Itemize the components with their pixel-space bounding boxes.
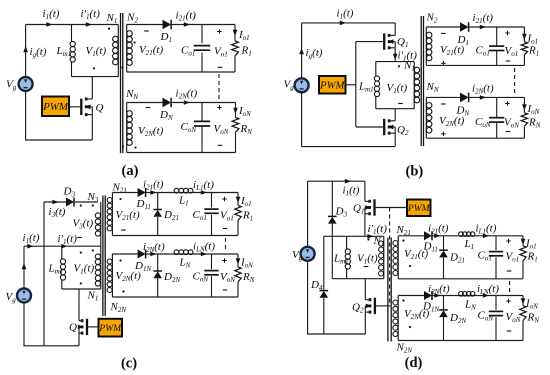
svg-text:Vo1: Vo1 bbox=[220, 210, 234, 223]
wire gate bus vertical (b) bbox=[355, 42, 357, 127]
wire RN branch lower (c) bbox=[237, 282, 239, 297]
transformer secondary winding N21 (d) bbox=[393, 236, 398, 279]
clamp diode D3 (d) bbox=[328, 216, 337, 223]
wire secondary1 bottom (a) bbox=[127, 71, 235, 73]
polarity dot primary bottom (a) bbox=[93, 67, 95, 69]
svg-text:Co1: Co1 bbox=[181, 45, 195, 58]
freewheel diode D2N (c) bbox=[153, 271, 162, 278]
wire drain tap lower (c) bbox=[78, 298, 80, 321]
current arrow ig (b) bbox=[299, 48, 304, 54]
diode D1 (b) bbox=[460, 22, 469, 32]
svg-text:R1: R1 bbox=[527, 251, 538, 264]
wire secondaryN top to DN (a) bbox=[127, 102, 163, 104]
polarity plus VoN (d) bbox=[506, 299, 511, 304]
wire RN branch upper (d) bbox=[522, 296, 524, 306]
svg-text:D2N: D2N bbox=[163, 271, 180, 284]
current arrow i3 (c) bbox=[52, 200, 58, 205]
wire primary loop bottom (d) bbox=[332, 278, 384, 280]
svg-text:RN: RN bbox=[242, 271, 255, 284]
inductor Lm1 (c) bbox=[60, 246, 65, 289]
wire gate lead Q2 (b) bbox=[356, 126, 384, 128]
current arrow i1 (d) bbox=[345, 179, 351, 184]
current arrow i21 (d) bbox=[434, 234, 440, 239]
svg-text:Lm1: Lm1 bbox=[48, 263, 64, 276]
diode D11 (c) bbox=[138, 188, 146, 197]
transformer primary winding N1 (a) bbox=[113, 25, 119, 77]
svg-text:iLN(t): iLN(t) bbox=[193, 241, 215, 254]
wire input top rail (b) bbox=[302, 22, 396, 24]
svg-text:NN: NN bbox=[426, 81, 439, 94]
svg-text:V2N(t): V2N(t) bbox=[138, 125, 164, 138]
svg-text:D2N: D2N bbox=[449, 312, 466, 325]
wire Q2 source (b) bbox=[394, 133, 396, 146]
svg-text:D1: D1 bbox=[160, 31, 172, 44]
wire secondary1 bottom (b) bbox=[426, 64, 524, 66]
polarity minus VoN (c) bbox=[223, 289, 228, 291]
PWM block (d) bbox=[407, 200, 431, 217]
svg-text:i1(t): i1(t) bbox=[343, 185, 360, 198]
svg-text:Io1: Io1 bbox=[238, 29, 250, 42]
svg-text:PWM: PWM bbox=[319, 80, 345, 92]
dot primary winding bottom (c) bbox=[80, 282, 82, 284]
svg-text:N1: N1 bbox=[373, 235, 385, 248]
wire RN branch upper (b) bbox=[523, 97, 525, 112]
dot N2N bottom (d) bbox=[409, 326, 411, 328]
polarity minus VoN (a) bbox=[218, 144, 223, 146]
dot secondary1 bottom-left (a) bbox=[121, 66, 123, 68]
wire Io1 arrow shaft (b) bbox=[523, 32, 525, 36]
wire drain tap (a) bbox=[91, 77, 93, 99]
wire CoN branch lower (c) bbox=[211, 276, 213, 297]
wire secondaryN top to D1N (d) bbox=[398, 295, 424, 297]
svg-text:N2N: N2N bbox=[110, 301, 127, 314]
polarity plus Vo1 (b) bbox=[505, 31, 510, 36]
wire Co1 branch upper (b) bbox=[496, 27, 498, 46]
wire Co1 branch upper (d) bbox=[495, 236, 497, 250]
wire secondaryN bottom (b) bbox=[426, 137, 524, 139]
svg-text:V2N(t): V2N(t) bbox=[439, 115, 465, 128]
wire RN branch upper (c) bbox=[237, 254, 239, 267]
svg-text:D3: D3 bbox=[335, 206, 348, 219]
polarity dot N1 (d) bbox=[367, 238, 369, 240]
svg-text:D11: D11 bbox=[136, 198, 151, 211]
dot reset winding (c) bbox=[80, 204, 82, 206]
wire secondaryN top after D1N (d) bbox=[432, 295, 523, 297]
diode D1N (d) bbox=[424, 291, 432, 300]
wire Co1 branch lower (a) bbox=[201, 53, 203, 73]
svg-text:Lm1: Lm1 bbox=[56, 45, 72, 58]
svg-text:ig(t): ig(t) bbox=[30, 46, 47, 59]
polarity dot N2N (d) bbox=[402, 299, 404, 301]
svg-text:Q: Q bbox=[69, 322, 77, 334]
capacitor CoN (a) bbox=[194, 121, 210, 126]
dashed link between outputs (c) bbox=[225, 238, 227, 252]
current arrow ig (a) bbox=[23, 46, 28, 52]
current arrow IoN (d) bbox=[521, 298, 526, 304]
wire Q2 source (d) bbox=[364, 312, 366, 334]
current arrow IoN (c) bbox=[236, 258, 241, 264]
MOSFET Q1 (b) bbox=[384, 33, 395, 49]
svg-text:N3: N3 bbox=[87, 191, 99, 204]
current arrow IoN (b) bbox=[522, 104, 527, 110]
wire Io1 arrow shaft (d) bbox=[522, 238, 524, 241]
svg-text:i21(t): i21(t) bbox=[176, 10, 197, 23]
wire primary loop bottom (c) bbox=[62, 288, 101, 290]
wire primary loop bottom (b) bbox=[376, 108, 414, 110]
dashed link between outputs (b) bbox=[514, 68, 516, 95]
resistor RN (c) bbox=[235, 267, 241, 282]
diode D3 (c) bbox=[66, 198, 74, 207]
resistor RN (a) bbox=[232, 118, 239, 133]
transformer secondary winding N2N (c) bbox=[107, 254, 112, 297]
svg-text:IoN: IoN bbox=[527, 103, 540, 116]
diode D1 (a) bbox=[163, 20, 172, 30]
wire Co1 branch lower (b) bbox=[496, 51, 498, 66]
wire PWM output lead (b) bbox=[346, 84, 356, 86]
current arrow iL1 (c) bbox=[201, 190, 207, 195]
svg-text:i1(t): i1(t) bbox=[337, 8, 354, 21]
polarity plus VoN (a) bbox=[217, 105, 222, 110]
svg-text:D1N: D1N bbox=[422, 301, 439, 314]
voltage source Vg (a) bbox=[19, 77, 33, 91]
transformer secondary winding N21 (c) bbox=[107, 193, 112, 236]
wire CoN branch lower (a) bbox=[201, 126, 203, 153]
svg-text:RN: RN bbox=[528, 117, 541, 130]
wire secondary1 top to D1 (b) bbox=[426, 26, 460, 28]
wire IoN arrow shaft (a) bbox=[235, 106, 237, 109]
svg-text:V3(t): V3(t) bbox=[73, 218, 94, 231]
current arrow Io1 (c) bbox=[236, 197, 241, 203]
wire input top rail (a) bbox=[26, 24, 119, 26]
polarity plus Vo1 (d) bbox=[506, 239, 511, 244]
current arrow i1-prime (d) bbox=[367, 234, 373, 239]
svg-text:VoN: VoN bbox=[220, 271, 235, 284]
dot secondaryN bottom (a) bbox=[134, 146, 136, 148]
wire secondaryN top to D1N (c) bbox=[112, 253, 137, 255]
freewheel diode D21 (c) bbox=[153, 210, 162, 217]
MOSFET Q1 (d) bbox=[365, 199, 375, 215]
polarity dot N21 (d) bbox=[402, 239, 404, 241]
resistor R1 (c) bbox=[235, 205, 241, 220]
svg-text:D4: D4 bbox=[310, 279, 323, 292]
svg-text:CoN: CoN bbox=[475, 116, 491, 129]
polarity minus VoN (d) bbox=[507, 330, 512, 332]
wire D2N branch lower (d) bbox=[443, 317, 445, 340]
svg-text:i2N(t): i2N(t) bbox=[472, 83, 494, 96]
wire primary loop bottom (a) bbox=[72, 76, 119, 78]
capacitor CoN (b) bbox=[489, 118, 504, 122]
wire drain tap (c) bbox=[78, 289, 80, 298]
filter inductor LN (d) bbox=[459, 292, 475, 297]
polarity minus V21 (a) bbox=[144, 30, 149, 32]
current arrow Io1 (b) bbox=[522, 34, 527, 40]
polarity minus V1 (d) bbox=[364, 266, 369, 268]
svg-text:Vo1: Vo1 bbox=[505, 45, 519, 58]
svg-text:i2N(t): i2N(t) bbox=[143, 241, 165, 254]
diode D1N (c) bbox=[138, 250, 146, 259]
current arrow IoN (a) bbox=[233, 108, 238, 114]
wire D21 branch lower (d) bbox=[443, 257, 445, 278]
wire R1 branch upper (a) bbox=[234, 25, 236, 42]
wire CoN branch upper (c) bbox=[211, 254, 213, 269]
svg-text:V1(t): V1(t) bbox=[86, 45, 107, 58]
polarity minus Vo1 (b) bbox=[506, 60, 511, 62]
wire CoN branch upper (a) bbox=[201, 103, 203, 122]
current arrow i2N (d) bbox=[434, 293, 440, 298]
capacitor CoN (c) bbox=[204, 271, 218, 275]
transformer secondary winding N2 (a) bbox=[127, 25, 133, 73]
svg-text:ig(t): ig(t) bbox=[306, 47, 323, 60]
wire bottom rail (b) bbox=[302, 92, 396, 147]
svg-text:R1: R1 bbox=[528, 45, 539, 58]
wire secondary1 top after D11 (d) bbox=[432, 235, 523, 237]
current arrow i2N (c) bbox=[150, 252, 156, 257]
polarity dot secondary1 (a) bbox=[134, 41, 136, 43]
wire bottom rail (d) bbox=[308, 261, 366, 334]
svg-text:IoN: IoN bbox=[525, 298, 538, 311]
wire R1 branch lower (b) bbox=[523, 55, 525, 66]
wire R1 branch lower (d) bbox=[522, 261, 524, 279]
wire CoN branch upper (d) bbox=[495, 296, 497, 310]
svg-text:CoN: CoN bbox=[193, 271, 209, 284]
svg-text:RN: RN bbox=[240, 123, 253, 136]
transformer secondary winding NN (b) bbox=[426, 97, 432, 138]
wire left leg upper (d) bbox=[307, 181, 309, 247]
svg-text:Q2: Q2 bbox=[397, 124, 409, 137]
transformer core (d) bbox=[388, 238, 391, 342]
wire Co1 branch upper (a) bbox=[201, 25, 203, 44]
polarity minus Vo1 (c) bbox=[223, 228, 228, 230]
wire secondaryN bottom (d) bbox=[398, 340, 523, 342]
wire secondary1 top after D11 (c) bbox=[146, 192, 238, 194]
dot secondaryN bottom (c) bbox=[122, 290, 124, 292]
svg-text:Co1: Co1 bbox=[476, 45, 490, 58]
svg-text:Q1: Q1 bbox=[353, 203, 364, 216]
wire secondaryN bottom (a) bbox=[127, 152, 236, 154]
wire secondaryN top after D1N (c) bbox=[146, 253, 238, 255]
wire secondaryN top after DN (b) bbox=[469, 96, 525, 98]
wire Q1 drain (d) bbox=[364, 181, 366, 201]
wire Co1 branch upper (c) bbox=[211, 193, 213, 208]
current arrow i1 (a) bbox=[46, 22, 52, 27]
capacitor Co1 (b) bbox=[489, 46, 504, 50]
svg-text:RN: RN bbox=[527, 312, 540, 325]
svg-text:i21(t): i21(t) bbox=[473, 12, 494, 25]
svg-text:PWM: PWM bbox=[98, 324, 122, 334]
wire secondary1 top to D11 (d) bbox=[398, 235, 424, 237]
svg-text:LN: LN bbox=[179, 257, 191, 270]
current arrow i2N (b) bbox=[480, 95, 486, 100]
svg-text:i2N(t): i2N(t) bbox=[428, 283, 450, 296]
svg-text:DN: DN bbox=[159, 109, 173, 122]
filter inductor L1 (d) bbox=[459, 232, 475, 237]
svg-text:Q1: Q1 bbox=[397, 36, 408, 49]
current arrow Io1 (d) bbox=[521, 239, 526, 245]
polarity dot N3 (c) bbox=[92, 204, 94, 206]
polarity minus V2N (b) bbox=[441, 103, 446, 105]
wire IoN arrow shaft (b) bbox=[523, 102, 525, 106]
svg-text:D1N: D1N bbox=[134, 260, 151, 273]
wire RN branch upper (a) bbox=[235, 103, 237, 118]
freewheel diode D21 (d) bbox=[439, 250, 448, 257]
polarity minus Vo1 (a) bbox=[218, 66, 223, 68]
current arrow i1 (c) bbox=[27, 244, 33, 249]
svg-text:i3(t): i3(t) bbox=[49, 206, 66, 219]
svg-text:L1: L1 bbox=[464, 238, 475, 251]
wire secondaryN bottom (c) bbox=[112, 296, 238, 298]
svg-text:R1: R1 bbox=[242, 210, 253, 223]
polarity minus primary (b) bbox=[398, 103, 403, 105]
polarity minus V21 (b) bbox=[441, 32, 446, 34]
wire source tap (a) bbox=[91, 115, 93, 140]
wire gate lead Q2 (d) bbox=[375, 305, 390, 307]
MOSFET Q (a) bbox=[81, 98, 92, 117]
polarity plus Vo1 (c) bbox=[222, 197, 227, 202]
transformer core (c) bbox=[103, 196, 105, 317]
wire left leg upper (c) bbox=[23, 246, 25, 289]
svg-text:LN: LN bbox=[464, 299, 476, 312]
wire Q1 source (d) bbox=[364, 214, 366, 237]
svg-text:N2: N2 bbox=[426, 12, 438, 25]
svg-text:V1(t): V1(t) bbox=[357, 253, 378, 266]
svg-text:Lm1: Lm1 bbox=[358, 81, 374, 94]
wire RN branch lower (a) bbox=[235, 132, 237, 152]
current arrow iL1 (d) bbox=[483, 234, 489, 239]
wire secondary1 bottom (c) bbox=[112, 235, 238, 237]
current arrow input (c) bbox=[22, 263, 27, 269]
svg-text:(b): (b) bbox=[406, 164, 424, 180]
transformer secondary winding N2N (d) bbox=[393, 296, 398, 341]
svg-text:VoN: VoN bbox=[504, 117, 519, 130]
capacitor Co1 (c) bbox=[204, 209, 218, 213]
transformer reset winding N3 (c) bbox=[95, 202, 101, 246]
wire gate lead (a) bbox=[69, 106, 81, 108]
svg-text:V21(t): V21(t) bbox=[116, 209, 140, 222]
wire primary loop top (b) bbox=[376, 61, 414, 63]
svg-text:IoN: IoN bbox=[238, 105, 251, 118]
svg-text:N2: N2 bbox=[126, 12, 138, 25]
wire left leg upper (b) bbox=[301, 23, 303, 79]
current arrow i2N (a) bbox=[184, 100, 190, 105]
wire left leg upper (a) bbox=[25, 25, 27, 78]
resistor RN (d) bbox=[520, 306, 526, 321]
svg-text:Vg: Vg bbox=[6, 79, 17, 92]
svg-text:VoN: VoN bbox=[214, 123, 229, 136]
svg-text:(d): (d) bbox=[405, 355, 423, 371]
transformer primary winding N1 (b) bbox=[414, 62, 420, 109]
svg-text:Io1: Io1 bbox=[240, 195, 252, 208]
svg-text:VoN: VoN bbox=[506, 311, 521, 324]
svg-text:V21(t): V21(t) bbox=[139, 44, 163, 57]
transformer secondary winding NN (a) bbox=[127, 103, 133, 153]
dashed gate line to Q2 (d) bbox=[389, 208, 391, 307]
resistor RN (b) bbox=[521, 113, 527, 126]
svg-text:PWM: PWM bbox=[407, 204, 431, 214]
PWM block (a) bbox=[42, 97, 69, 117]
transformer core (a) bbox=[121, 13, 123, 153]
wire R1 branch lower (c) bbox=[237, 220, 239, 235]
svg-text:D1: D1 bbox=[457, 34, 469, 47]
current arrow iLN (c) bbox=[201, 252, 207, 257]
current arrow i1-prime (a) bbox=[86, 22, 92, 27]
wire source tap (c) bbox=[78, 333, 80, 346]
svg-text:i1(t): i1(t) bbox=[23, 232, 40, 245]
polarity plus VoN (c) bbox=[222, 258, 227, 263]
wire D21 branch lower (c) bbox=[157, 217, 159, 236]
wire input top rail (d) bbox=[308, 180, 365, 182]
svg-text:N21: N21 bbox=[396, 224, 411, 237]
svg-text:D21: D21 bbox=[449, 252, 465, 265]
svg-text:i1(t): i1(t) bbox=[43, 8, 60, 21]
wire Q1 source to primary (b) bbox=[394, 48, 396, 62]
wire CoN branch lower (b) bbox=[496, 122, 498, 138]
svg-text:Q2: Q2 bbox=[352, 302, 364, 315]
svg-text:V1(t): V1(t) bbox=[387, 82, 408, 95]
wire secondary1 top after D1 (a) bbox=[171, 24, 235, 26]
wire D3 row left (c) bbox=[44, 201, 66, 203]
svg-text:i′1(t): i′1(t) bbox=[81, 8, 101, 21]
wire D3 row right (c) bbox=[74, 201, 98, 203]
polarity minus VoN (b) bbox=[506, 131, 511, 133]
current arrow i21 (a) bbox=[184, 22, 190, 27]
inductor Lm1 (b) bbox=[374, 62, 379, 109]
wire D4 branch upper (d) bbox=[323, 236, 325, 290]
polarity plus Vo1 (a) bbox=[217, 29, 222, 34]
svg-text:IoN: IoN bbox=[240, 257, 253, 270]
clamp diode D4 (d) bbox=[320, 291, 329, 298]
wire D21 branch upper (d) bbox=[443, 236, 445, 250]
voltage source Vg (d) bbox=[301, 247, 315, 261]
wire gate lead Q1 (d) bbox=[375, 207, 408, 209]
svg-text:D3: D3 bbox=[63, 186, 76, 199]
inductor Lm1 (d) bbox=[345, 236, 350, 278]
wire D3 branch lower / primary left (d) bbox=[331, 224, 333, 279]
wire R1 branch upper (d) bbox=[522, 236, 524, 246]
svg-text:N1: N1 bbox=[87, 290, 99, 303]
resistor R1 (b) bbox=[521, 42, 527, 55]
svg-text:Io1: Io1 bbox=[525, 238, 537, 251]
wire R1 branch upper (c) bbox=[237, 193, 239, 206]
svg-text:Co1: Co1 bbox=[193, 209, 207, 222]
dot secondaryN bottom-left (a) bbox=[122, 145, 124, 147]
wire secondaryN top to DN (b) bbox=[426, 96, 460, 98]
wire bottom rail (c) bbox=[24, 302, 79, 346]
svg-text:Vg: Vg bbox=[6, 291, 17, 304]
current arrow Io1 (a) bbox=[233, 30, 238, 36]
PWM block (c) bbox=[98, 319, 122, 337]
current arrow i1-prime (c) bbox=[61, 244, 67, 249]
wire IoN arrow shaft (c) bbox=[237, 257, 239, 260]
wire gate lead Q1 (b) bbox=[356, 41, 384, 43]
dot primary winding top (c) bbox=[80, 251, 82, 253]
svg-text:D11: D11 bbox=[423, 241, 438, 254]
svg-text:PWM: PWM bbox=[42, 101, 69, 113]
voltage source Vg (b) bbox=[295, 78, 309, 92]
svg-text:i21(t): i21(t) bbox=[143, 179, 164, 192]
PWM block (b) bbox=[319, 76, 346, 94]
wire primary row (c) bbox=[24, 245, 101, 247]
transformer core (b) bbox=[421, 16, 423, 146]
wire Q1 drain (b) bbox=[394, 23, 396, 36]
wire D3 loop vertical (c) bbox=[43, 202, 45, 346]
wire secondary1 top to D1 (a) bbox=[127, 24, 163, 26]
svg-text:iL1(t): iL1(t) bbox=[476, 223, 497, 236]
wire secondaryN top after DN (a) bbox=[171, 102, 236, 104]
wire secondary1 bottom (d) bbox=[398, 278, 523, 280]
wire IoN arrow shaft (d) bbox=[522, 297, 524, 300]
svg-text:Q: Q bbox=[96, 102, 104, 114]
dot secondaryN top (c) bbox=[119, 259, 121, 261]
